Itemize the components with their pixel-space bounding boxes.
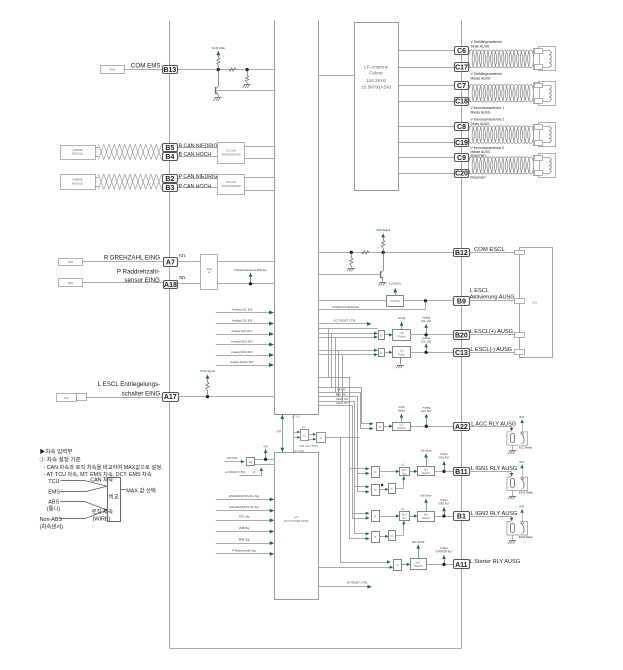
svg-text:Analog CGL IN2: Analog CGL IN2 xyxy=(232,318,253,322)
Q1 base wire to uC xyxy=(216,90,274,92)
feedback node B9 xyxy=(424,299,427,302)
wire ACC driver to A22 xyxy=(410,426,454,428)
svg-text:B20: B20 xyxy=(455,332,468,339)
svg-text:WSS: WSS xyxy=(207,268,213,271)
connector A17 xyxy=(163,393,179,402)
ESCL actuator box xyxy=(520,248,553,358)
connector A7 xyxy=(164,258,178,267)
svg-text:C13: C13 xyxy=(455,350,468,357)
branch vertical to KEY IN bus xyxy=(335,337,337,392)
connector B20 xyxy=(454,331,470,340)
relay IGN2 switch contact xyxy=(521,522,523,524)
connector C9 xyxy=(455,154,469,162)
bus branch to IGN2 xyxy=(353,514,367,519)
gap logic box K xyxy=(317,433,326,443)
Zuendung arrow above HS Pulse xyxy=(400,322,404,326)
wire ACT block to B9 xyxy=(404,300,454,302)
wires connectors to ESCL actuator xyxy=(469,252,515,254)
svg-text:Analog IGN2 RLY: Analog IGN2 RLY xyxy=(231,350,253,354)
svg-text:INTERLOCK/ENGAGE: INTERLOCK/ENGAGE xyxy=(332,305,359,309)
ESCL actuator pin AKT xyxy=(515,299,525,304)
connector B4 xyxy=(163,153,178,161)
body CAN module box xyxy=(61,146,96,160)
lower uC input: BRK Sig xyxy=(216,543,272,545)
wire B13 to uC block xyxy=(178,69,275,71)
relay ACC coil box xyxy=(507,432,528,445)
pulse glyph A18 xyxy=(180,277,186,279)
CAN merge funnel xyxy=(85,481,107,486)
svg-text:Switch: Switch xyxy=(398,410,406,413)
svg-text:L ESCL(-) AUSG: L ESCL(-) AUSG xyxy=(470,347,512,353)
wire buffer to HS switch Starter xyxy=(402,564,408,566)
svg-text:CGL: CGL xyxy=(64,397,70,400)
relay ACC wire bend into coil xyxy=(511,426,513,428)
svg-text:VDD Signal: VDD Signal xyxy=(376,228,390,232)
svg-text:R DREHZAHL EING: R DREHZAHL EING xyxy=(104,255,160,262)
svg-text:C7: C7 xyxy=(457,83,466,90)
svg-text:V Innenraumantenne 1: V Innenraumantenne 1 xyxy=(471,106,505,110)
svg-text:V Stoßfängerantenne: V Stoßfängerantenne xyxy=(471,40,503,44)
wire cond block to uC lower xyxy=(218,283,274,285)
svg-text:Fahrer: Fahrer xyxy=(369,71,383,76)
svg-text:Switch: Switch xyxy=(414,564,423,568)
svg-text:▶차속 입력부: ▶차속 입력부 xyxy=(40,448,73,456)
transistor Q2 COM ESCL xyxy=(383,252,385,270)
svg-text:ACT RESET CTRL: ACT RESET CTRL xyxy=(333,318,356,322)
KEY SUPP arrow above Starter driver xyxy=(416,544,420,548)
pull-down resistor R3 xyxy=(247,70,249,76)
HS switch driver IGN2 xyxy=(418,512,435,522)
svg-text:CGL_IN1: CGL_IN1 xyxy=(421,340,432,343)
svg-text:SUB CGL1 PRTN: SUB CGL1 PRTN xyxy=(299,445,318,448)
svg-text:L ESCL Entriegelungs-: L ESCL Entriegelungs- xyxy=(98,381,160,388)
buffer U9 IGN2 aux xyxy=(372,532,380,543)
svg-text:sensor EING: sensor EING xyxy=(124,277,160,284)
svg-text:μC RESET CTRL: μC RESET CTRL xyxy=(225,470,246,474)
EMS module box xyxy=(101,66,125,74)
buffer U8 IGN2 xyxy=(372,511,380,522)
svg-text:KEY IN: KEY IN xyxy=(337,388,346,392)
pulse glyph A7 xyxy=(180,255,186,257)
svg-text:COM EMS: COM EMS xyxy=(131,63,161,70)
feedback node B1 xyxy=(442,514,445,517)
wire LF block to C19 xyxy=(398,142,454,144)
svg-text:Masse AUSG: Masse AUSG xyxy=(471,111,491,115)
connector B13 xyxy=(163,66,178,74)
KL30 supply arrow for COM EMS xyxy=(216,51,220,55)
VDD arrow B12 net xyxy=(381,233,385,237)
wheel sensor 2 box xyxy=(59,279,83,287)
wire A17 to uC xyxy=(178,396,274,398)
wire uC to B12 xyxy=(319,252,454,254)
svg-text:GEAR SPT: GEAR SPT xyxy=(336,401,350,405)
ESCL actuator pin + xyxy=(515,333,525,338)
svg-text:Rg: Rg xyxy=(249,460,253,464)
svg-text:BRK SW: BRK SW xyxy=(336,392,347,396)
Pruefen IGN2 RLY tap xyxy=(442,507,446,511)
svg-text:A17: A17 xyxy=(164,394,177,401)
svg-text:Analog IGN1 RLY: Analog IGN1 RLY xyxy=(231,339,253,343)
wire LF block to C6 xyxy=(398,50,454,52)
buffer U6 IGN1 xyxy=(372,467,380,478)
svg-text:LF-Antenne: LF-Antenne xyxy=(364,65,388,70)
relay IGN2 ground xyxy=(512,535,514,541)
svg-text:IGN1 RLY: IGN1 RLY xyxy=(438,457,450,460)
wire A7 to conditioning block xyxy=(178,261,201,263)
svg-text:STARTER RLY: STARTER RLY xyxy=(436,550,453,553)
lower uC input: ESC/ESC&TCS IN- Sig xyxy=(216,510,272,512)
svg-text:ANDERE: ANDERE xyxy=(72,149,83,152)
feedback node A22 xyxy=(425,425,428,428)
feedback node A11 xyxy=(442,563,445,566)
svg-text:b: b xyxy=(374,515,376,519)
regulator box xyxy=(247,458,255,466)
svg-text:KEY SUPP: KEY SUPP xyxy=(412,541,425,544)
wire sensor2 to A18 xyxy=(82,282,163,284)
wire A22 to ACC relay xyxy=(469,426,512,428)
svg-text:(차속센서): (차속센서) xyxy=(40,523,64,531)
svg-text:Switch: Switch xyxy=(422,471,431,475)
VIN input wire xyxy=(225,461,242,463)
svg-text:VIN: VIN xyxy=(263,444,267,448)
interlock sense wire to uC xyxy=(319,309,426,311)
svg-text:Masse AUSG: Masse AUSG xyxy=(471,76,491,80)
svg-text:V Stoßfängerantenne: V Stoßfängerantenne xyxy=(471,72,503,76)
branch vertical to GEAR SW bus xyxy=(342,355,344,402)
svg-text:GEAR SW: GEAR SW xyxy=(336,397,349,401)
svg-text:L ESCL: L ESCL xyxy=(470,288,489,294)
pull-up resistor to VDD xyxy=(383,248,385,252)
ground G1 xyxy=(244,84,251,86)
svg-text:MAX 값 선택: MAX 값 선택 xyxy=(126,486,156,494)
svg-text:A18: A18 xyxy=(164,282,177,289)
lower microcontroller block xyxy=(275,453,319,600)
svg-text:B9: B9 xyxy=(457,298,466,305)
HS-CAN transceiver block xyxy=(218,175,245,195)
wire B1 to IGN2 relay xyxy=(469,516,512,518)
starter buffer second input xyxy=(341,438,389,563)
svg-text:Switch: Switch xyxy=(422,516,431,520)
feedback node C13 xyxy=(425,351,428,354)
analog input wire: Analog IGN1 RLY xyxy=(216,344,272,346)
wire A18 to conditioning block xyxy=(178,283,201,285)
junction node on COM EMS line xyxy=(217,68,220,71)
bumper antenna coil C7/C18 xyxy=(469,85,471,87)
svg-text:KL30 Signal: KL30 Signal xyxy=(200,369,215,373)
svg-text:BAT: BAT xyxy=(519,460,525,464)
bus wire 1 from uC xyxy=(319,378,367,469)
connector B9 xyxy=(454,297,470,306)
svg-text:≥1: ≥1 xyxy=(391,487,395,491)
bumper antenna coil C8/C19 xyxy=(469,126,471,128)
svg-text:KL30 LINE: KL30 LINE xyxy=(212,46,225,50)
gap logic feed line from upper uC xyxy=(293,414,295,452)
svg-text:① 차속 설정 기준: ① 차속 설정 기준 xyxy=(40,455,81,463)
svg-text:μC VDD: μC VDD xyxy=(294,449,304,453)
svg-text:BAT: BAT xyxy=(519,415,525,419)
IGN1 aux logic box xyxy=(389,484,396,494)
svg-text:ABS: ABS xyxy=(68,261,73,264)
svg-text:B2: B2 xyxy=(165,176,174,183)
wires B2/B3 to HS-CAN transceiver xyxy=(178,178,218,180)
wire switch to A17 xyxy=(86,397,162,399)
relay IGN1 coil xyxy=(511,479,515,488)
series resistor R2 COM EMS xyxy=(229,68,236,71)
analog input wire: Analog CGL IN1 xyxy=(216,312,272,314)
relay IGN1 wire bend into coil xyxy=(511,471,513,473)
wires HS transceiver to uC xyxy=(245,177,274,179)
connector A18 xyxy=(164,281,178,289)
wire LF block to C7 xyxy=(398,85,454,87)
connector C17 xyxy=(455,63,469,72)
buffer U4 for C13 xyxy=(379,349,385,357)
svg-text:x1: x1 xyxy=(303,434,306,438)
svg-text:P CAN HOCH: P CAN HOCH xyxy=(179,184,212,190)
svg-text:C8: C8 xyxy=(457,124,466,131)
x1 RLY switch block IGN2 xyxy=(400,512,410,521)
gap logic arrows between boxes xyxy=(308,434,313,436)
wire aux buffer to logic xyxy=(379,489,386,491)
svg-text:VHB Sig: VHB Sig xyxy=(239,526,250,530)
svg-text:Analog CGL IN1: Analog CGL IN1 xyxy=(232,307,253,311)
svg-text:+C: +C xyxy=(252,471,255,474)
compare box xyxy=(108,478,121,522)
svg-text:Pulse: Pulse xyxy=(398,335,406,339)
svg-text:b: b xyxy=(374,535,376,539)
svg-text:Zündg: Zündg xyxy=(398,316,406,320)
relay ACC switch contact xyxy=(521,432,523,434)
regulator output wires to lower uC xyxy=(255,459,274,461)
bus wire 2 from uC xyxy=(319,388,371,424)
svg-text:L IGN2 RLY AUSG: L IGN2 RLY AUSG xyxy=(471,511,518,517)
svg-text:Pulse: Pulse xyxy=(398,352,406,356)
lower uC input: P Raddrehzahl Sig xyxy=(216,553,272,555)
twisted pair B-CAN xyxy=(95,147,99,149)
x1 RLY switch block IGN1 xyxy=(400,468,410,476)
wire buffer to HS Pulse driver xyxy=(385,334,390,336)
ground G3 xyxy=(348,268,355,270)
wire merge funnel logic speed xyxy=(85,502,107,510)
VIN node and arrow xyxy=(264,458,267,461)
AD RESET CTRL wire xyxy=(319,586,369,588)
svg-text:BAT: BAT xyxy=(519,505,525,509)
relay IGN2 wire bend into coil xyxy=(511,516,513,518)
connector C8 xyxy=(455,123,469,131)
svg-text:Analog ACC RLY: Analog ACC RLY xyxy=(231,329,252,333)
svg-text:B1: B1 xyxy=(457,514,466,521)
svg-text:P Raddrehzahlsensor EING Sig: P Raddrehzahlsensor EING Sig xyxy=(234,269,267,272)
aux logic to RLY switch arrow xyxy=(403,479,405,484)
svg-text:ABS: ABS xyxy=(68,282,73,285)
svg-text:ACT/Rly: ACT/Rly xyxy=(391,300,401,303)
svg-text:C6: C6 xyxy=(457,48,466,55)
svg-text:(DCT POWER PRTN): (DCT POWER PRTN) xyxy=(284,519,309,523)
pull-up resistor R1 on COM EMS line xyxy=(218,65,220,69)
outer ECU box right edge xyxy=(461,21,463,649)
svg-text:b: b xyxy=(397,563,399,567)
KL30 arrow above ACC driver xyxy=(400,414,403,418)
svg-text:ACC Relay: ACC Relay xyxy=(519,445,533,449)
svg-text:P CAN NIEDRIG: P CAN NIEDRIG xyxy=(179,174,218,180)
relay IGN1 ground xyxy=(512,490,514,496)
svg-text:schalter EING: schalter EING xyxy=(122,390,161,397)
svg-text:MODULE: MODULE xyxy=(72,153,83,156)
svg-text:CAN 차속: CAN 차속 xyxy=(90,476,113,484)
node 2 B12 net xyxy=(382,251,385,254)
power hand-off arrow upper to lower uC xyxy=(282,414,284,452)
CGL switch symbol xyxy=(57,394,77,402)
connector B11 xyxy=(454,468,470,476)
svg-text:VTR: VTR xyxy=(277,432,282,434)
svg-text:b: b xyxy=(379,425,381,429)
svg-text:IGN2 RLY: IGN2 RLY xyxy=(438,503,450,506)
svg-text:B3: B3 xyxy=(165,185,174,192)
connector C19 xyxy=(455,139,469,147)
ACC driver block LS Switch xyxy=(393,423,411,431)
buffer U10 Starter xyxy=(394,560,402,571)
svg-text:Aktivierung AUSG: Aktivierung AUSG xyxy=(470,294,515,300)
svg-text:Reserviert: Reserviert xyxy=(471,175,486,179)
gap logic wire from K box xyxy=(326,437,360,439)
wire LF block to C18 xyxy=(398,101,454,103)
wire LF block to C9 xyxy=(398,157,454,159)
HS switch driver IGN1 xyxy=(418,467,435,476)
analog input wire: Analog CGL IN2 xyxy=(216,323,272,325)
wire buffer to LS Pulse driver xyxy=(385,352,390,354)
svg-text:b: b xyxy=(380,334,382,338)
svg-text:Voll Strom: Voll Strom xyxy=(420,495,431,498)
LS-CAN transceiver block xyxy=(218,143,245,164)
wire HS switch to B1 xyxy=(434,516,453,518)
bus branch to IGN1 aux xyxy=(358,474,367,492)
bumper antenna coil C9/C20 xyxy=(469,157,471,159)
svg-text:CGL_IN2: CGL_IN2 xyxy=(421,320,432,323)
arrow tap on A18 line xyxy=(249,273,253,277)
ground G4 below Q2 xyxy=(379,282,386,284)
wire LF block to C17 xyxy=(398,67,454,69)
lower uC input: ESC/ESC&TCS IN+ Sig xyxy=(216,499,272,501)
ESCL actuator pin COM xyxy=(515,251,525,255)
connector B5 xyxy=(163,144,178,152)
aux logic to RLY switch arrow IGN2 xyxy=(403,524,405,531)
svg-text:≥1: ≥1 xyxy=(391,534,395,538)
wire uC to ACT block xyxy=(319,300,387,302)
Pruefen STARTER RLY tap xyxy=(442,555,446,559)
svg-text:A22: A22 xyxy=(455,424,468,431)
Voll Strom arrow above IGN1 driver xyxy=(424,453,428,457)
wheel sensor 1 box xyxy=(59,259,83,266)
svg-text:EMS: EMS xyxy=(109,68,115,72)
wire LS Pulse to C13 xyxy=(411,352,454,354)
svg-text:Analog Starter RLY: Analog Starter RLY xyxy=(230,360,254,364)
relay ACC ground xyxy=(512,445,514,451)
wire LF block to C8 xyxy=(398,126,454,128)
connector B12 xyxy=(454,249,470,257)
ACT RESET wire xyxy=(319,323,369,325)
branch vertical from B20 buffer wire to bus 2 xyxy=(331,333,333,387)
wire HS Pulse to B20 xyxy=(411,334,454,336)
svg-text:TRANSCEIVER: TRANSCEIVER xyxy=(222,184,241,188)
lower uC input: ATC Sig xyxy=(216,520,272,522)
ground G2 below Q1 xyxy=(215,97,222,99)
svg-text:B12: B12 xyxy=(455,250,468,257)
HS switch driver Starter xyxy=(411,559,427,570)
bumper antenna coil C6/C17 xyxy=(469,50,471,52)
HS Pulse driver block xyxy=(393,330,411,341)
connector C20 xyxy=(455,170,469,178)
svg-text:B5: B5 xyxy=(165,145,174,152)
starter drive wire from lower uC xyxy=(319,567,391,569)
wire buffer IGN1 to RLY switch xyxy=(379,471,397,473)
main microcontroller block (upper) xyxy=(275,21,319,415)
wire to HS switch IGN1 xyxy=(409,471,415,473)
buffer U7 IGN1 aux xyxy=(372,485,380,496)
speed input conditioning block xyxy=(201,255,218,290)
svg-text:b: b xyxy=(374,488,376,492)
wires B5/B4 to LS-CAN transceiver xyxy=(178,147,218,149)
powertrain CAN module box xyxy=(61,175,96,190)
ground below LS Pulse xyxy=(400,358,402,365)
Q2 base wire to uC xyxy=(319,274,381,276)
series resistor B12 net xyxy=(361,251,369,254)
relay IGN1 switch contact xyxy=(521,477,523,479)
svg-text:B13: B13 xyxy=(163,67,176,74)
svg-text:134.2KHz: 134.2KHz xyxy=(366,78,387,83)
connector A11 xyxy=(454,560,470,569)
wire buffer IGN2 to RLY switch xyxy=(379,516,397,518)
IGN2 aux logic box xyxy=(389,531,396,541)
buffer U3 for B20 xyxy=(379,331,385,340)
connector C13 xyxy=(454,349,470,357)
svg-text:A11: A11 xyxy=(455,562,468,569)
svg-text:Strom AUSG: Strom AUSG xyxy=(471,44,490,48)
pull-up on A17 line xyxy=(206,395,209,398)
svg-text:ANDERE: ANDERE xyxy=(72,179,83,182)
svg-text:TRANSCEIVER: TRANSCEIVER xyxy=(222,152,241,156)
connector B1 xyxy=(454,512,470,521)
svg-text:L Starter RLY AUSG: L Starter RLY AUSG xyxy=(470,559,520,565)
wire HS switch to B11 xyxy=(434,471,453,473)
pull-down resistor B12 net xyxy=(351,252,353,257)
svg-text:C18: C18 xyxy=(455,99,468,106)
svg-text:AD RESET CTRL: AD RESET CTRL xyxy=(347,581,369,585)
svg-text:ABS: ABS xyxy=(48,499,59,505)
svg-text:B4: B4 xyxy=(165,154,174,161)
svg-text:B11: B11 xyxy=(455,469,468,476)
Pruefen IGN RLY tap xyxy=(442,461,445,465)
relay IGN2 coil box xyxy=(507,522,528,535)
LF-Antenne Fahrer driver block xyxy=(355,23,399,191)
svg-text:B CAN NIEDRIG: B CAN NIEDRIG xyxy=(179,143,218,149)
branch vertical to BRK SW bus xyxy=(338,350,340,397)
svg-text:C20: C20 xyxy=(455,171,468,178)
wires transceiver to uC xyxy=(245,146,274,148)
wire uC to LF block xyxy=(319,75,354,77)
svg-text:P Raddrehzahl-: P Raddrehzahl- xyxy=(117,269,160,276)
feedback node B11 xyxy=(442,470,445,473)
svg-text:P Raddrehzahl Sig: P Raddrehzahl Sig xyxy=(232,548,256,552)
svg-text:KL9 ESCL: KL9 ESCL xyxy=(389,282,402,286)
wire aux buffer to logic IGN2 xyxy=(379,536,386,538)
node on COM ESCL line xyxy=(350,251,353,254)
Analog CGL_IN2 tap xyxy=(424,324,428,328)
svg-text:±0.5KHz(ASK): ±0.5KHz(ASK) xyxy=(361,84,391,89)
svg-text:Strom AUSG: Strom AUSG xyxy=(471,122,490,126)
svg-text:MODULE: MODULE xyxy=(72,182,83,185)
svg-text:ATC Sig: ATC Sig xyxy=(239,515,250,519)
svg-text:CGL: CGL xyxy=(532,301,538,305)
svg-text:ACC RLY: ACC RLY xyxy=(421,410,432,413)
